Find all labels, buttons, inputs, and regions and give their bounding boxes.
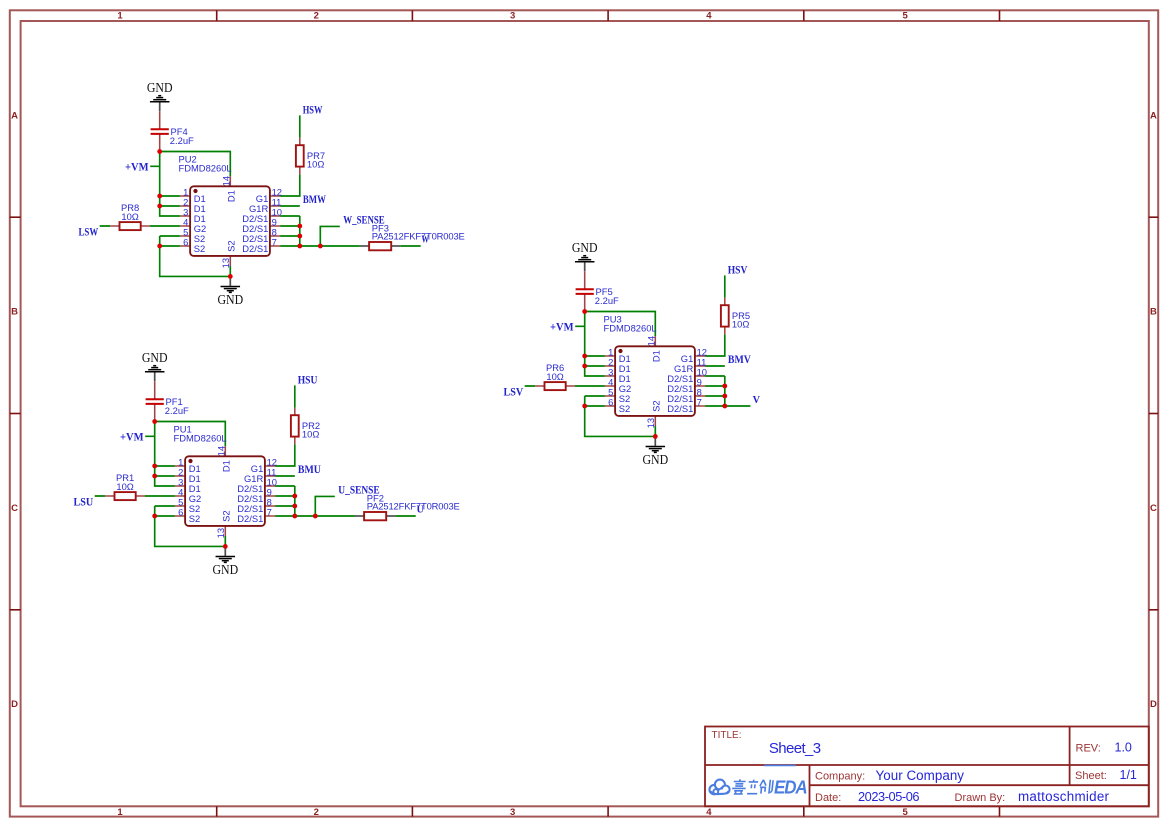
svg-text:2.2uF: 2.2uF xyxy=(165,405,189,416)
svg-text:S2: S2 xyxy=(189,513,200,524)
svg-text:B: B xyxy=(1150,307,1157,318)
svg-text:2.2uF: 2.2uF xyxy=(170,135,194,146)
svg-text:2: 2 xyxy=(314,807,319,818)
svg-text:C: C xyxy=(11,503,18,514)
svg-text:7: 7 xyxy=(267,506,272,517)
svg-text:HSV: HSV xyxy=(728,263,748,277)
svg-text:5: 5 xyxy=(903,10,909,21)
svg-text:Company:: Company: xyxy=(815,771,865,783)
svg-text:S2: S2 xyxy=(220,510,231,521)
svg-text:GND: GND xyxy=(147,80,173,95)
svg-text:A: A xyxy=(11,110,18,121)
svg-text:D2/S1: D2/S1 xyxy=(667,403,693,414)
svg-text:13: 13 xyxy=(645,418,656,428)
svg-text:S2: S2 xyxy=(225,240,236,251)
svg-text:4: 4 xyxy=(706,10,712,21)
svg-text:10Ω: 10Ω xyxy=(116,481,133,492)
svg-text:1/1: 1/1 xyxy=(1120,768,1137,782)
svg-text:6: 6 xyxy=(183,236,188,247)
svg-text:1.0: 1.0 xyxy=(1115,741,1132,755)
svg-text:W_SENSE: W_SENSE xyxy=(343,212,384,226)
svg-text:D1: D1 xyxy=(650,350,661,362)
svg-text:LSW: LSW xyxy=(79,225,99,239)
svg-text:S2: S2 xyxy=(650,400,661,411)
svg-text:4: 4 xyxy=(706,807,712,818)
svg-text:10Ω: 10Ω xyxy=(546,371,563,382)
svg-text:5: 5 xyxy=(903,807,909,818)
svg-text:7: 7 xyxy=(272,236,277,247)
svg-text:FDMD8260L: FDMD8260L xyxy=(179,163,232,174)
svg-text:U: U xyxy=(417,505,425,516)
svg-text:BMW: BMW xyxy=(303,192,326,206)
svg-text:D1: D1 xyxy=(225,190,236,202)
svg-text:W: W xyxy=(422,235,430,246)
svg-text:FDMD8260L: FDMD8260L xyxy=(604,323,657,334)
svg-text:BMU: BMU xyxy=(298,462,321,476)
svg-text:1: 1 xyxy=(117,807,123,818)
svg-text:+VM: +VM xyxy=(125,159,149,173)
svg-text:GND: GND xyxy=(642,452,668,467)
svg-text:LSU: LSU xyxy=(74,495,94,509)
svg-text:Sheet:: Sheet: xyxy=(1075,770,1107,782)
svg-text:PA2512FKF7T0R003E: PA2512FKF7T0R003E xyxy=(367,501,460,512)
svg-text:S2: S2 xyxy=(194,243,205,254)
svg-text:PA2512FKF7T0R003E: PA2512FKF7T0R003E xyxy=(372,231,465,242)
svg-text:Date:: Date: xyxy=(815,792,841,804)
svg-text:10Ω: 10Ω xyxy=(302,428,319,439)
svg-text:HSU: HSU xyxy=(298,373,318,387)
svg-text:2: 2 xyxy=(314,10,319,21)
svg-text:D2/S1: D2/S1 xyxy=(242,243,268,254)
svg-text:HSW: HSW xyxy=(303,103,323,117)
svg-text:GND: GND xyxy=(217,292,243,307)
svg-text:10Ω: 10Ω xyxy=(732,318,749,329)
svg-text:D: D xyxy=(11,699,18,710)
svg-text:2.2uF: 2.2uF xyxy=(595,295,619,306)
svg-text:14: 14 xyxy=(220,176,231,186)
svg-text:TITLE:: TITLE: xyxy=(712,730,742,741)
svg-text:+VM: +VM xyxy=(550,319,574,333)
svg-text:6: 6 xyxy=(608,396,613,407)
svg-text:14: 14 xyxy=(215,446,226,456)
svg-text:6: 6 xyxy=(178,506,183,517)
svg-text:BMV: BMV xyxy=(728,352,751,366)
svg-text:EDA: EDA xyxy=(774,777,807,798)
svg-text:D: D xyxy=(1150,699,1157,710)
svg-text:A: A xyxy=(1150,110,1157,121)
svg-text:D1: D1 xyxy=(220,460,231,472)
svg-text:3: 3 xyxy=(510,10,515,21)
svg-text:GND: GND xyxy=(212,562,238,577)
svg-text:B: B xyxy=(11,307,18,318)
svg-text:FDMD8260L: FDMD8260L xyxy=(174,433,227,444)
svg-text:U_SENSE: U_SENSE xyxy=(338,482,380,496)
svg-text:REV:: REV: xyxy=(1076,743,1101,755)
svg-text:13: 13 xyxy=(215,528,226,538)
svg-text:GND: GND xyxy=(572,240,598,255)
svg-text:13: 13 xyxy=(220,258,231,268)
svg-text:D2/S1: D2/S1 xyxy=(237,513,263,524)
svg-text:LSV: LSV xyxy=(504,385,524,399)
svg-text:C: C xyxy=(1150,503,1157,514)
svg-text:10Ω: 10Ω xyxy=(307,158,324,169)
svg-text:10Ω: 10Ω xyxy=(121,211,138,222)
svg-text:14: 14 xyxy=(645,336,656,346)
svg-text:mattoschmider: mattoschmider xyxy=(1018,789,1110,804)
svg-text:2023-05-06: 2023-05-06 xyxy=(858,789,920,804)
svg-text:GND: GND xyxy=(142,350,168,365)
svg-text:1: 1 xyxy=(117,10,123,21)
svg-text:7: 7 xyxy=(697,396,702,407)
svg-text:Your Company: Your Company xyxy=(876,768,965,783)
svg-text:Drawn By:: Drawn By: xyxy=(955,792,1006,804)
svg-text:3: 3 xyxy=(510,807,515,818)
svg-text:+VM: +VM xyxy=(120,429,144,443)
svg-text:V: V xyxy=(753,395,761,406)
svg-text:Sheet_3: Sheet_3 xyxy=(769,740,821,757)
svg-text:S2: S2 xyxy=(619,403,630,414)
